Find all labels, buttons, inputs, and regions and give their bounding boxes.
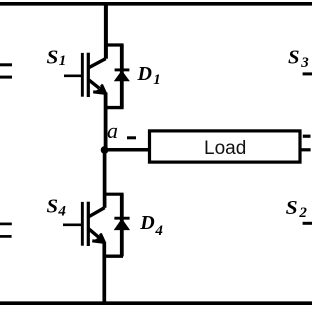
svg-text:1: 1 bbox=[153, 72, 161, 88]
wire: bottom DC bus rail bbox=[0, 301, 312, 305]
capacitor C2 (lower DC-link, clipped at left edge) bbox=[0, 224, 12, 237]
IGBT S1 bbox=[64, 53, 106, 97]
svg-text:S: S bbox=[47, 46, 59, 68]
wire: D1 branch top bbox=[104, 43, 123, 46]
wire: S4 emitter to bottom rail bbox=[102, 242, 106, 303]
diode D4 bbox=[114, 194, 130, 256]
svg-text:D: D bbox=[139, 212, 154, 234]
svg-text:S: S bbox=[286, 197, 298, 219]
wire: D4 branch top bbox=[104, 193, 124, 196]
svg-text:Load: Load bbox=[204, 138, 246, 159]
wire: S2 gate lead (clipped at right edge) bbox=[303, 222, 312, 225]
svg-text:4: 4 bbox=[57, 203, 66, 219]
svg-text:S: S bbox=[288, 46, 300, 68]
wire: load to right bridge leg (clipped) bbox=[300, 148, 311, 151]
IGBT S4 bbox=[63, 202, 105, 246]
svg-text:2: 2 bbox=[298, 205, 307, 221]
load box bbox=[150, 131, 301, 162]
wire: top DC bus rail bbox=[0, 2, 312, 6]
polarity minus (load right, clipped) bbox=[303, 135, 311, 138]
wire: S3 gate lead (clipped at right edge) bbox=[303, 72, 312, 75]
capacitor C1 (upper DC-link, clipped at left edge) bbox=[0, 65, 12, 77]
node a junction dot bbox=[101, 146, 109, 154]
wire: D4 branch bottom bbox=[104, 255, 124, 258]
svg-text:4: 4 bbox=[154, 223, 163, 239]
wire: S1 emitter to node a bbox=[104, 93, 108, 151]
polarity minus (load left) bbox=[127, 136, 136, 139]
wire: node a to load bbox=[105, 148, 149, 152]
wire: top rail to S1 collector bbox=[104, 2, 108, 59]
svg-text:3: 3 bbox=[300, 55, 309, 71]
wire: D1 branch bottom bbox=[104, 106, 124, 109]
svg-text:S: S bbox=[47, 195, 59, 217]
svg-text:D: D bbox=[137, 63, 152, 85]
svg-text:1: 1 bbox=[59, 53, 67, 69]
wire: node a to S4 collector bbox=[103, 150, 107, 208]
svg-text:a: a bbox=[107, 118, 118, 143]
diode D1 bbox=[114, 45, 130, 108]
